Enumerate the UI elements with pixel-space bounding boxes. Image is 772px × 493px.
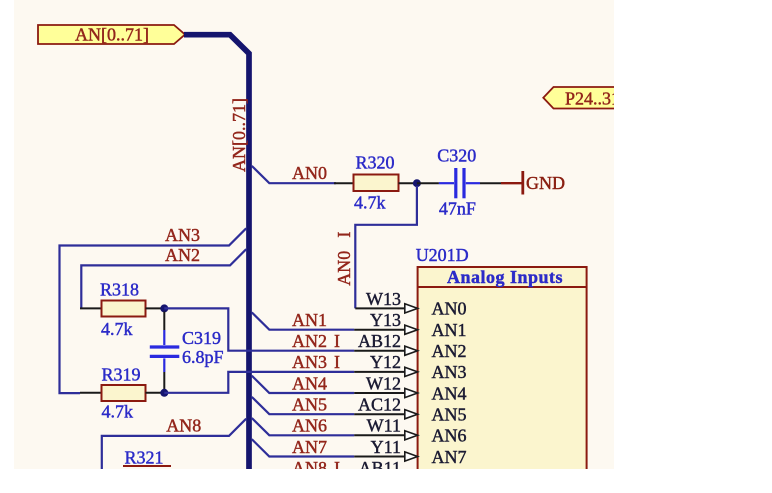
wire AN4 bus entry [252, 376, 354, 393]
svg-text:AN8: AN8 [166, 416, 201, 436]
wire AN3 with bus entry [60, 228, 247, 393]
resistor R319 [80, 365, 164, 422]
svg-text:AC12: AC12 [358, 395, 401, 415]
svg-text:AN7: AN7 [292, 437, 327, 457]
svg-text:Y13: Y13 [370, 310, 401, 330]
svg-text:AN4: AN4 [432, 383, 467, 403]
wire AN6 bus entry [252, 418, 354, 435]
svg-text:R319: R319 [102, 365, 141, 385]
capacitor C320 [417, 146, 501, 219]
resistor R321 (cut off at sheet edge) [123, 448, 171, 468]
bus AN[0..71] [184, 35, 249, 469]
svg-text:AN5: AN5 [292, 395, 327, 415]
op-amp U201D part box [416, 245, 587, 477]
svg-text:Y11: Y11 [371, 437, 401, 457]
junction node at R318/C319 [160, 304, 168, 312]
wire AN2_I from R318 junction across bus to pin AB12 [164, 308, 354, 350]
svg-text:R318: R318 [100, 280, 139, 300]
sheet background [14, 0, 614, 469]
wire AN0_I from junction to pin W13 [355, 186, 417, 308]
svg-text:AN6: AN6 [432, 426, 467, 446]
node AN0 I label (vertical) [334, 232, 354, 286]
svg-text:AN[0..71]: AN[0..71] [75, 25, 149, 45]
svg-text:AN5: AN5 [432, 405, 467, 425]
svg-text:P24..31: P24..31 [565, 88, 620, 108]
svg-text:AN4: AN4 [292, 373, 327, 393]
svg-text:W11: W11 [367, 416, 401, 436]
svg-text:AN2: AN2 [165, 245, 200, 265]
svg-text:AN7: AN7 [432, 447, 467, 467]
svg-text:AN3: AN3 [432, 362, 467, 382]
pin AB12 AN2 [292, 331, 467, 361]
svg-text:AN2: AN2 [292, 331, 327, 351]
svg-text:AN1: AN1 [432, 320, 467, 340]
svg-text:4.7k: 4.7k [102, 402, 134, 422]
wire AN1 bus entry [252, 312, 354, 329]
svg-text:C320: C320 [437, 146, 476, 166]
pin W11 AN6 [292, 416, 467, 446]
junction node at R319/C319 [160, 389, 168, 397]
pin Y11 AN7 [292, 437, 467, 467]
svg-text:47nF: 47nF [439, 199, 476, 219]
wire AN2 with bus entry [81, 249, 246, 308]
pin Y13 AN1 [292, 310, 467, 340]
svg-text:6.8pF: 6.8pF [182, 347, 224, 367]
svg-text:R321: R321 [125, 448, 164, 468]
svg-text:AN[0..71]: AN[0..71] [229, 98, 249, 172]
svg-text:GND: GND [526, 173, 565, 193]
svg-text:AN2: AN2 [432, 341, 467, 361]
svg-text:W12: W12 [366, 373, 401, 393]
wire AN5 bus entry [252, 397, 354, 414]
junction node at R320/C320 [413, 179, 421, 187]
svg-text:W13: W13 [366, 289, 401, 309]
svg-text:AB12: AB12 [358, 331, 401, 351]
svg-text:AN1: AN1 [292, 310, 327, 330]
svg-text:U201D: U201D [416, 245, 469, 265]
svg-text:AN0: AN0 [334, 251, 354, 286]
svg-text:C319: C319 [182, 328, 221, 348]
svg-text:R320: R320 [356, 152, 395, 172]
pin Y12 AN3 [292, 352, 467, 382]
svg-text:4.7k: 4.7k [354, 193, 386, 213]
pin AC12 AN5 [292, 395, 467, 425]
resistor R318 [80, 280, 164, 340]
wire AN3_I from R319 junction across bus to pin Y12 [164, 372, 354, 393]
svg-text:I: I [334, 352, 340, 372]
svg-text:AN0: AN0 [292, 163, 327, 183]
svg-text:Y12: Y12 [370, 352, 401, 372]
port flag AN[0..71] [38, 25, 185, 45]
svg-text:I: I [334, 232, 354, 238]
ground GND power port [501, 171, 565, 195]
pin AB11 AN8 (cut off at sheet edge) [292, 458, 401, 478]
svg-text:Analog Inputs: Analog Inputs [447, 267, 563, 287]
svg-text:AN3: AN3 [292, 352, 327, 372]
wire AN0 bus entry [252, 166, 336, 183]
white crop margins [614, 0, 772, 493]
pin W12 AN4 [292, 373, 467, 403]
svg-text:AN6: AN6 [292, 416, 327, 436]
pin W13 AN0 [355, 289, 466, 319]
port flag P24..31 (cut off at sheet edge) [543, 87, 622, 109]
svg-text:I: I [334, 331, 340, 351]
svg-text:4.7k: 4.7k [101, 319, 133, 339]
svg-text:AN3: AN3 [165, 225, 200, 245]
wire AN8 to bus entry [102, 419, 246, 469]
capacitor C319 [150, 312, 224, 390]
wire AN7 bus entry [252, 439, 354, 456]
svg-text:AN0: AN0 [432, 299, 467, 319]
resistor R320 [334, 152, 417, 212]
